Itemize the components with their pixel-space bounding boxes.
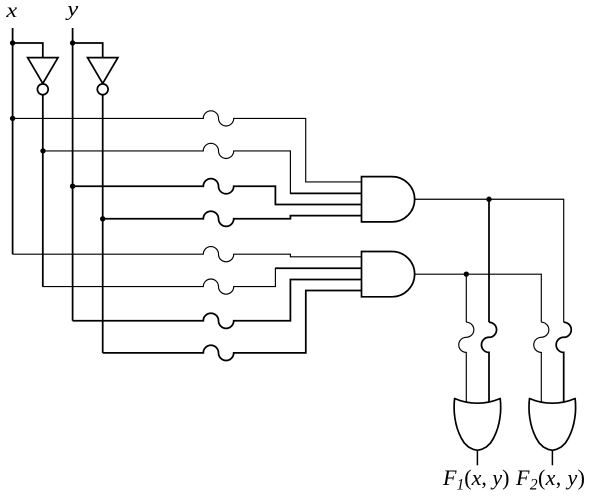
fuse on vertical to OR1 left input [459,322,474,403]
inverter U2 triangle [88,58,118,84]
AND gate G2 [362,252,415,297]
wire: AND1 output to right column [415,199,564,322]
wire: row 6 stub into AND2 [275,267,362,269]
node: row1/x junction [10,116,15,121]
wire: OR2 output stub [551,450,553,465]
AND gate G1 [362,177,415,222]
node: AND1 output junction [486,197,491,202]
node: row2/x' junction [40,148,45,153]
OR gate G4 [529,399,576,451]
inverter U1 triangle [28,58,58,84]
wire: vertical from AND1 junction down to OR1 [488,199,490,322]
wire: y input vertical [72,28,74,321]
inverter U1 bubble [37,84,48,95]
wire: row 2 stub into AND1 [290,192,362,194]
wire: x' vertical [42,95,44,287]
wire: product row 6 (x') with fuse F2b [43,268,276,294]
wire: product row 3 (y) with fuse F3a [73,179,362,205]
wire: product row 5 (x) with fuse F1b [13,247,362,262]
svg-text:x: x [5,0,17,22]
fuse on vertical to OR2 right input [556,322,571,403]
wire: product row 4 (y') with fuse F4a [103,211,362,226]
node: junction x/branch [10,40,15,45]
svg-text:y: y [65,0,78,20]
wire: AND2 output to right column [415,274,542,322]
wire: branch from y to inverter U2 [73,43,103,58]
node: row3/y junction [70,184,75,189]
wire: branch from x to inverter U1 [13,43,43,58]
svg-text:F2(x, y): F2(x, y) [515,465,585,494]
wire: product row 1 (x) with fuse F1a [13,111,362,182]
wire: product row 8 (y') with fuse F4b [103,291,362,361]
svg-text:F1(x, y): F1(x, y) [442,465,510,494]
wire: OR1 output stub [476,450,478,465]
wire: product row 2 (x') with fuse F2a [43,143,290,193]
wire: vertical from AND2 junction down to OR1 [465,274,467,322]
wire: product row 7 (y) with fuse F3b [73,279,362,328]
fuse on vertical to OR1 right input [481,322,496,403]
node: row4/y' junction [100,216,105,221]
inverter U2 bubble [97,84,108,95]
wire: x input vertical [12,28,14,254]
node: AND2 output junction [464,271,469,276]
OR gate G3 [454,399,501,451]
node: junction y/branch [70,40,75,45]
fuse on vertical to OR2 left input [534,322,549,403]
wire: y' vertical [102,95,104,353]
